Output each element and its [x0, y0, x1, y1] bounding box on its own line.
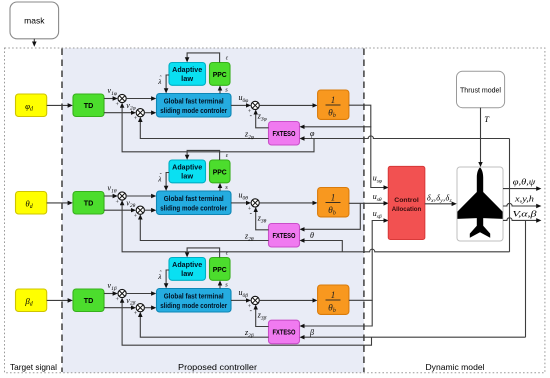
svg-text:β: β [309, 328, 314, 337]
block FXTESO row3 [269, 320, 300, 344]
block global fast terminal sliding mode controller [157, 94, 232, 118]
label Target signal [10, 362, 57, 372]
label lambda hat [157, 174, 162, 184]
label z_2theta [244, 232, 254, 243]
junction sum1 [116, 289, 127, 303]
svg-text:PPC: PPC [213, 265, 227, 274]
label v_1 [108, 184, 117, 195]
block target &#952;_d [16, 192, 47, 215]
wire PPC to adaptive law (epsilon) [187, 248, 220, 258]
wire z3beta from FXTESO to sum3 row3 [256, 309, 269, 327]
block PPC [210, 63, 231, 86]
svg-text:+: + [116, 102, 120, 108]
svg-text:law: law [181, 76, 194, 83]
wire PPC to adaptive law (epsilon) [187, 53, 220, 63]
svg-text:+: + [134, 116, 138, 122]
svg-text:φ: φ [310, 129, 315, 138]
block mask [10, 2, 59, 39]
block FXTESO row2 [269, 224, 300, 248]
svg-text:Adaptive: Adaptive [172, 67, 202, 74]
wire theta riser into FXTESO row2 [304, 241, 343, 252]
label v_2 [126, 101, 135, 112]
wire z3phi from FXTESO to sum3 row1 [256, 114, 269, 128]
junction sum3 [248, 296, 259, 314]
junction sum2 [134, 109, 145, 123]
label x y h [514, 194, 534, 203]
block gain 1/theta_b [318, 285, 349, 314]
junction sum1 [116, 192, 127, 206]
svg-text:PPC: PPC [213, 70, 227, 79]
wire adaptive law to controller (lambda) [166, 173, 169, 187]
block thrust model [457, 71, 505, 107]
label lambda hat [157, 76, 162, 86]
wire sum1 to controller [126, 195, 152, 197]
svg-text:FXTESO: FXTESO [273, 233, 296, 240]
wire controller to sum3 (u_0) [231, 104, 247, 106]
svg-text:FXTESO: FXTESO [273, 330, 296, 337]
wire sum1 to controller [126, 98, 152, 100]
wire phi feedback into FXTESO row1 (with hop) [304, 136, 510, 139]
label epsilon [226, 153, 229, 159]
wire beta branch to sum1 row3 [122, 302, 371, 345]
svg-text:PPC: PPC [213, 168, 227, 177]
svg-text:Allocation: Allocation [392, 206, 422, 213]
label u_stheta [373, 192, 382, 203]
svg-text:Adaptive: Adaptive [172, 262, 202, 269]
block TD [73, 192, 104, 215]
wire adaptive law to controller (lambda) [166, 75, 169, 89]
svg-text:Global fast terminal: Global fast terminal [164, 293, 224, 300]
block adaptive law [169, 63, 206, 86]
wire TD to sum1 [104, 293, 114, 295]
svg-text:+: + [134, 214, 138, 220]
svg-text:φ,θ,ψ: φ,θ,ψ [513, 178, 537, 187]
block TD [73, 94, 104, 117]
block gain 1/theta_b [318, 90, 349, 119]
label theta row2 [310, 231, 314, 240]
svg-text:θ: θ [310, 231, 314, 240]
label Proposed controller [178, 362, 257, 372]
wire sum3 to gain [259, 299, 313, 301]
svg-text:Global fast terminal: Global fast terminal [164, 98, 224, 105]
wire controller to sum3 (u_0) [231, 202, 247, 204]
block FXTESO row1 [269, 122, 300, 146]
wire gain3 output to control allocation (u_sbeta) [349, 221, 385, 301]
svg-text:law: law [181, 174, 194, 181]
wire output x y h [503, 203, 537, 206]
junction sum1 [116, 94, 127, 108]
block target &#946;_d [16, 289, 47, 312]
svg-text:Adaptive: Adaptive [172, 165, 202, 172]
shaded proposed-controller region [62, 48, 364, 373]
wire u branch into FXTESO row3 [304, 300, 373, 326]
label z_3beta [257, 311, 267, 322]
svg-text:1: 1 [331, 96, 336, 106]
block adaptive law [169, 160, 206, 183]
wire z2phi from FXTESO to sum2 row1 [140, 121, 268, 139]
wire u branch into FXTESO row1 [304, 126, 372, 128]
row 2: &#952; channel [16, 150, 349, 219]
wire adaptive law to controller (lambda) [166, 270, 169, 284]
tap beta from V alpha beta line [525, 220, 527, 337]
svg-text:Thrust model: Thrust model [460, 85, 501, 94]
label z_2beta [244, 328, 254, 339]
label T [484, 114, 490, 124]
label Dynamic model [426, 362, 485, 372]
label phi theta psi [513, 178, 537, 187]
svg-text:Target signal: Target signal [10, 362, 57, 372]
label u_sphi [373, 174, 382, 185]
svg-text:TD: TD [84, 101, 94, 110]
wire controller to PPC (s) [219, 285, 221, 289]
block adaptive law [169, 258, 206, 281]
block aircraft dynamic model [457, 167, 503, 241]
wire TD to sum2 [104, 307, 132, 309]
junction sum3 [248, 101, 259, 119]
wire controller to sum3 (u_0) [231, 299, 247, 301]
label beta row3 [309, 328, 314, 337]
block PPC [210, 258, 231, 281]
tap phi from output line [509, 139, 511, 189]
wire sum2 to controller [144, 112, 152, 114]
svg-text:law: law [181, 271, 194, 278]
svg-text:Dynamic model: Dynamic model [426, 362, 485, 372]
svg-text:mask: mask [24, 16, 45, 26]
wire z2theta from FXTESO to sum2 row2 [140, 219, 268, 241]
svg-text:sliding mode controler: sliding mode controler [160, 108, 227, 115]
wire TD to sum1 [104, 195, 114, 197]
label z_3theta [257, 214, 267, 225]
svg-text:sliding mode controler: sliding mode controler [160, 205, 227, 212]
label u_0 [239, 191, 249, 202]
wire sum3 to gain [259, 104, 313, 106]
label lambda hat [157, 271, 162, 281]
label u_0 [239, 288, 249, 299]
label u_sbeta [373, 209, 382, 220]
row 1: &#966; channel [16, 53, 349, 122]
svg-text:Proposed controller: Proposed controller [178, 362, 257, 372]
wire sum2 to controller [144, 209, 152, 211]
svg-text:+: + [134, 311, 138, 317]
svg-text:TD: TD [84, 199, 94, 208]
wire z3theta from FXTESO to sum3 row2 [256, 211, 269, 230]
wire gain2 output to control allocation (u_stheta) [349, 202, 385, 204]
label epsilon [226, 251, 229, 257]
label v_1 [108, 281, 117, 292]
wire theta feedback long line to sum1 row2 [122, 204, 509, 252]
svg-text:Global fast terminal: Global fast terminal [164, 196, 224, 203]
svg-text:δx,δy,δz: δx,δy,δz [427, 193, 453, 204]
wire thrust model to aircraft (T) [480, 108, 482, 163]
block global fast terminal sliding mode controller [157, 289, 232, 313]
block PPC [210, 160, 231, 183]
label s [225, 282, 228, 289]
label V alpha beta [513, 209, 537, 218]
wire TD to sum2 [104, 112, 132, 114]
label epsilon [226, 56, 229, 62]
svg-text:x,y,h: x,y,h [514, 194, 534, 203]
svg-text:V,α,β: V,α,β [513, 209, 537, 218]
label delta_x delta_y delta_z [427, 193, 453, 204]
wire target to TD [47, 202, 69, 204]
block target &#966;_d [16, 94, 47, 117]
label v_1 [108, 86, 117, 97]
label s [225, 184, 228, 191]
label s [225, 87, 228, 94]
svg-text:1: 1 [331, 193, 336, 203]
dashed divider right (controller/dynamic) [363, 49, 365, 373]
label u_0 [239, 93, 249, 104]
wire controller to PPC (s) [219, 187, 221, 191]
wire mask to frame [33, 39, 35, 43]
label z_2phi [244, 130, 254, 141]
junction sum2 [134, 206, 145, 220]
svg-text:Control: Control [394, 197, 419, 204]
block control allocation [388, 166, 425, 239]
wire output V alpha beta [503, 218, 537, 221]
junction sum2 [134, 304, 145, 318]
label v_2 [126, 296, 135, 307]
wire output phi theta psi [503, 188, 537, 190]
wire sum1 to controller [126, 293, 152, 295]
wire TD to sum2 [104, 209, 132, 211]
wire PPC to adaptive law (epsilon) [187, 150, 220, 160]
svg-text:sliding mode controler: sliding mode controler [160, 303, 227, 310]
wire sum3 to gain [259, 202, 313, 204]
svg-text:FXTESO: FXTESO [273, 131, 296, 138]
wire gain1 output to control allocation (u_sphi) [349, 105, 385, 187]
wire controller to PPC (s) [219, 90, 221, 94]
row 3: &#946; channel [16, 248, 349, 317]
wire sum2 to controller [144, 307, 152, 309]
label phi row1 [310, 129, 315, 138]
junction sum3 [248, 199, 259, 217]
wire TD to sum1 [104, 98, 114, 100]
wire z2beta from FXTESO to sum2 row3 [140, 316, 268, 337]
wire target to TD [47, 299, 69, 301]
svg-text:1: 1 [331, 291, 336, 301]
aircraft silhouette [457, 167, 502, 237]
block gain 1/theta_b [318, 188, 349, 217]
wire phi branch to sum1 row1 [122, 107, 314, 152]
block global fast terminal sliding mode controller [157, 191, 232, 215]
block TD [73, 289, 104, 312]
tap theta from output line (with hops) [509, 189, 511, 252]
wire u branch into FXTESO row2 [304, 203, 361, 229]
wire beta feedback into FXTESO row3 [304, 336, 526, 338]
dashed divider left (target/controller) [61, 49, 63, 373]
svg-text:TD: TD [84, 296, 94, 305]
label z_3phi [257, 112, 267, 123]
svg-text:+: + [116, 297, 120, 303]
svg-text:+: + [116, 200, 120, 206]
wire target to TD [47, 104, 69, 106]
wire CA to aircraft (delta) [425, 203, 453, 205]
label v_2 [126, 198, 135, 209]
